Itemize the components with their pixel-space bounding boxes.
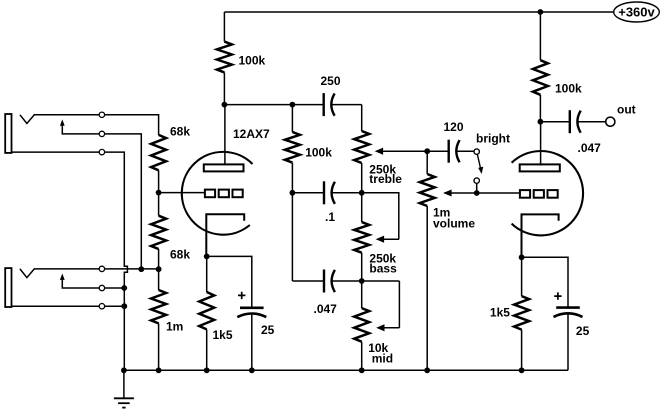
wire J2 ring row: [105, 287, 125, 289]
svg-text:bass: bass: [369, 262, 397, 276]
switch S1 bright terminal A: [474, 149, 479, 154]
node tone stack top: [290, 102, 296, 108]
supply terminal +360v: [614, 2, 660, 22]
wire R3 to C3: [291, 193, 293, 281]
capacitor C5 25 bypass: [237, 308, 266, 371]
node ground rail R5: [204, 367, 210, 373]
wire ground rail: [124, 369, 568, 371]
node ground rail C5: [249, 367, 255, 373]
resistor R3 100k slope: [285, 105, 300, 193]
label C5 25: [261, 323, 275, 337]
label VR1 treble: [369, 172, 402, 186]
potentiometer VR4 1m volume: [420, 151, 435, 370]
resistor R6 100k plate (V2): [533, 12, 548, 122]
jack J2 input 2: [5, 266, 104, 309]
wire J2 sleeve row: [105, 305, 125, 307]
label VR2 250k: [369, 252, 396, 266]
label VR4 volume: [433, 216, 475, 230]
wire V1 plate row: [224, 104, 361, 106]
ground symbol: [114, 370, 134, 407]
resistor R2 100k plate (V1): [217, 12, 232, 105]
wire bass row left: [292, 280, 324, 282]
capacitor C6 .047 output: [570, 110, 581, 133]
svg-text:25: 25: [576, 324, 590, 338]
svg-text:.1: .1: [325, 210, 335, 224]
node B+ supply: [538, 9, 544, 15]
svg-text:1k5: 1k5: [213, 328, 233, 342]
node bass bottom: [359, 278, 365, 284]
svg-text:out: out: [617, 103, 636, 117]
resistor R7 1k5: [514, 257, 529, 370]
tube V1 plate: [204, 105, 244, 172]
node J2 sleeve: [121, 303, 127, 309]
wire plate to C6: [540, 121, 569, 123]
label V1 12AX7: [233, 127, 270, 141]
terminal out: [606, 117, 615, 126]
wire mid row left: [292, 192, 324, 194]
svg-text:250: 250: [321, 74, 341, 88]
label C2 .1: [325, 210, 335, 224]
wire J1 tip to R1a: [105, 115, 159, 135]
capacitor C1 250: [324, 93, 335, 116]
label R3 100k: [305, 146, 332, 160]
wire switch to grid row: [476, 184, 478, 193]
svg-text:volume: volume: [433, 216, 475, 230]
node ground rail R4: [156, 367, 162, 373]
label VR4 1m: [433, 206, 450, 220]
label R2 100k: [239, 54, 266, 68]
node ground rail gnd-left: [121, 367, 127, 373]
wire C1 to treble: [361, 105, 363, 131]
potentiometer VR1 250k treble: [354, 131, 369, 193]
label R6 100k: [555, 82, 582, 96]
capacitor C4 120: [449, 140, 460, 163]
svg-text:treble: treble: [369, 172, 402, 186]
resistor R1b 68k: [151, 193, 166, 270]
wire volume to C4: [427, 150, 449, 152]
svg-text:bright: bright: [476, 132, 510, 146]
label VR2 bass: [369, 262, 397, 276]
svg-text:+360v: +360v: [618, 5, 655, 20]
wiper VR3 mid: [377, 281, 399, 331]
node V2 cathode: [519, 254, 525, 260]
svg-text:.047: .047: [578, 141, 602, 155]
node J2 ring: [121, 285, 127, 291]
capacitor C2 .1: [324, 181, 335, 204]
tube V2 plate: [520, 122, 560, 172]
node V2 plate: [538, 119, 544, 125]
label C1 250: [321, 74, 341, 88]
wire C4 to switch: [456, 150, 473, 152]
node treble bottom: [359, 190, 365, 196]
svg-text:mid: mid: [372, 352, 393, 366]
label R7 1k5: [490, 306, 510, 320]
label R5 1k5: [213, 328, 233, 342]
svg-text:1k5: 1k5: [490, 306, 510, 320]
label C7 25: [576, 324, 590, 338]
label R1b 68k: [170, 248, 190, 262]
label C3 .047: [314, 302, 338, 316]
node V1 grid: [156, 190, 162, 196]
node V1 plate: [222, 102, 228, 108]
wire bass row right: [332, 280, 400, 282]
label C4 120: [444, 120, 464, 134]
svg-text:68k: 68k: [170, 125, 190, 139]
label R4 1m: [166, 320, 183, 334]
tube V1 envelope: [182, 152, 253, 235]
node R3 bottom: [290, 190, 296, 196]
resistor R4 1m grid leak: [151, 269, 166, 370]
svg-text:100k: 100k: [239, 54, 266, 68]
switch S1 bright terminal B: [474, 178, 479, 183]
node V1 cathode: [204, 254, 210, 260]
tube V2 grid: [520, 190, 558, 198]
label out: [617, 103, 636, 117]
wiper VR1 treble: [376, 148, 428, 154]
label R1a 68k: [170, 125, 190, 139]
wire C6 to out: [577, 121, 605, 123]
node volume wiper: [474, 190, 480, 196]
potentiometer VR2 250k bass: [354, 193, 369, 281]
wiper VR2 bass: [362, 193, 399, 242]
svg-text:.047: .047: [314, 302, 338, 316]
svg-text:100k: 100k: [305, 146, 332, 160]
node R1b bottom: [156, 266, 162, 272]
label C7 polarity: [554, 292, 561, 299]
tube V1 cathode: [206, 214, 244, 256]
wire J1 switch down: [105, 134, 142, 269]
tube V2 cathode: [522, 214, 559, 257]
tube V2 envelope: [512, 151, 583, 235]
resistor R5 1k5: [199, 256, 214, 370]
capacitor C7 25 bypass: [554, 308, 583, 371]
capacitor C3 .047: [324, 270, 335, 293]
svg-text:120: 120: [444, 120, 464, 134]
node volume top: [424, 148, 430, 154]
svg-text:68k: 68k: [170, 248, 190, 262]
wire J2 tip row: [105, 268, 159, 270]
wire B+ rail: [224, 11, 614, 13]
wire cathode to C7: [522, 257, 568, 307]
potentiometer VR3 10k mid: [354, 281, 369, 370]
label VR3 10k: [368, 341, 388, 355]
node ground rail VR4: [424, 367, 430, 373]
svg-text:1m: 1m: [166, 320, 183, 334]
jack J1 input 1: [5, 112, 104, 155]
resistor R1a 68k: [151, 135, 166, 193]
tube V1 grid: [205, 190, 243, 198]
switch S1 arm: [477, 155, 483, 175]
wiper VR4 volume: [445, 190, 521, 196]
label C5 polarity: [238, 292, 245, 299]
svg-text:25: 25: [261, 323, 275, 337]
node J1 switch to J2 tip: [138, 266, 144, 272]
wire cathode to C5: [207, 256, 252, 307]
wire J1 sleeve down: [105, 152, 128, 370]
label VR1 250k: [369, 163, 396, 177]
label C6 .047: [578, 141, 602, 155]
node ground rail VR3: [359, 367, 365, 373]
wire mid row right: [332, 192, 362, 194]
node ground rail R7: [519, 367, 525, 373]
label S1 bright: [476, 132, 510, 146]
label VR3 mid: [372, 352, 393, 366]
svg-text:100k: 100k: [555, 82, 582, 96]
svg-text:12AX7: 12AX7: [233, 127, 270, 141]
wire V1 grid lead: [159, 192, 205, 194]
